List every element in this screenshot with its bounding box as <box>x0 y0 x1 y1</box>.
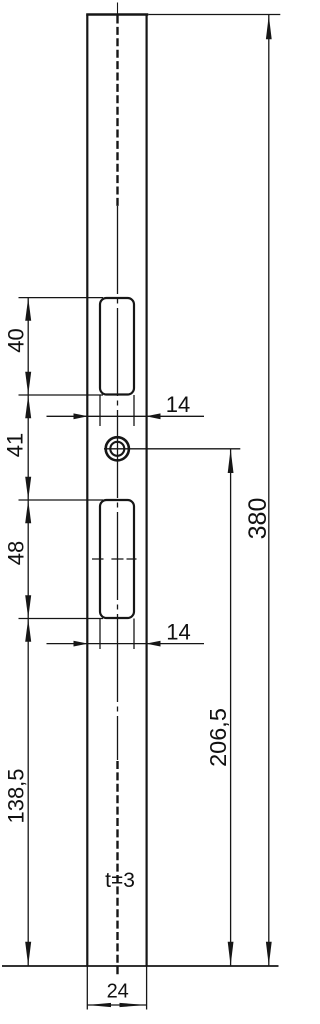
hole extension line (to 206,5 dimension) <box>104 448 240 450</box>
slot 2 horizontal center mark <box>92 558 137 560</box>
380 dimension line <box>268 15 270 966</box>
extension line slot1 top <box>19 297 104 299</box>
arrow 206,5 top <box>228 449 234 473</box>
arrow 138.5 top <box>25 619 31 642</box>
slot 2 (lower rounded cutout) <box>100 500 134 618</box>
206,5 dimension line <box>230 449 232 966</box>
upper 14 extension line right (slot edge) <box>133 395 135 426</box>
arrow 40 top <box>25 298 31 321</box>
upper 14 dimension line <box>47 415 205 417</box>
svg-text:41: 41 <box>2 433 27 457</box>
svg-text:138,5: 138,5 <box>3 768 28 823</box>
svg-text:380: 380 <box>244 498 272 540</box>
svg-text:14: 14 <box>166 392 190 417</box>
24 dimension line <box>87 1004 146 1006</box>
arrow 138.5 bottom <box>25 942 31 966</box>
svg-text:t=3: t=3 <box>105 869 135 892</box>
upper 14 left arrow <box>74 413 89 419</box>
svg-text:40: 40 <box>4 328 29 352</box>
extension line slot2 bottom <box>19 618 104 620</box>
bottom baseline / extension line <box>2 965 279 967</box>
screw hole (countersunk, two concentric circles) <box>106 437 129 460</box>
extension line slot2 top <box>19 499 104 501</box>
lower 14 left arrow <box>74 641 89 647</box>
24 extension line right (plate edge extended) <box>146 966 148 1010</box>
24 extension line left (plate edge extended) <box>86 966 88 1010</box>
faceplate outline <box>86 15 148 967</box>
upper 14 extension line left (slot edge) <box>99 395 101 426</box>
arrow 41 bottom <box>25 477 31 500</box>
arrow 48 bottom <box>25 595 31 618</box>
svg-text:206,5: 206,5 <box>205 708 231 767</box>
centerline bold dashed lower segment <box>116 761 118 977</box>
centerline thin top stub <box>117 3 119 16</box>
centerline bold dashed upper segment <box>116 16 118 207</box>
arrow 48 top <box>25 500 31 523</box>
slot 1 (upper rounded cutout) <box>100 298 134 395</box>
arrow 41 top <box>25 395 31 418</box>
lower 14 right arrow <box>146 641 161 647</box>
upper 14 right arrow <box>146 413 161 419</box>
svg-text:48: 48 <box>4 541 29 565</box>
arrow 206,5 bottom <box>228 942 234 966</box>
arrow 380 top <box>266 15 272 39</box>
arrow 40 bottom <box>25 372 31 395</box>
lower 14 extension line right (slot edge) <box>133 619 135 650</box>
24 right arrow <box>120 1003 147 1007</box>
lower 14 dimension line <box>47 643 205 645</box>
lower 14 extension line left (slot edge) <box>99 619 101 650</box>
svg-text:24: 24 <box>107 981 129 1003</box>
centerline thin dash-dot middle segment <box>117 206 119 760</box>
left dimension line column <box>27 298 29 966</box>
svg-text:14: 14 <box>166 620 190 645</box>
24 left arrow <box>87 1003 111 1007</box>
top extension line (to 380 dimension) <box>148 14 280 16</box>
extension line slot1 bottom <box>19 394 104 396</box>
arrow 380 bottom <box>266 942 272 966</box>
